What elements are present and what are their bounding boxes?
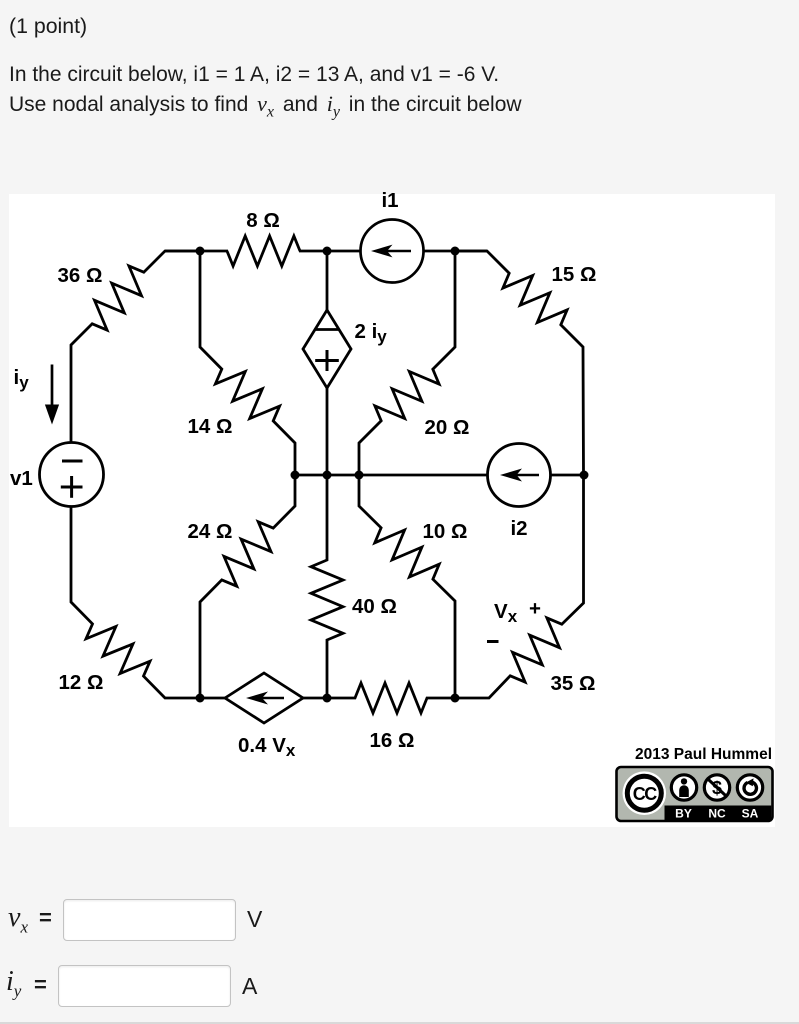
wire top bus left (node A to 8 ohm) bbox=[165, 250, 228, 253]
0.4Vx arrow (pointing left) bbox=[246, 692, 284, 705]
CC badge black strip bbox=[665, 806, 772, 822]
svg-text:35 Ω: 35 Ω bbox=[551, 672, 596, 695]
resistor 14 Ω (left-middle diagonal) bbox=[200, 251, 295, 475]
current source i2 arrow (pointing left) bbox=[500, 469, 539, 482]
v1 plus sign bbox=[61, 476, 83, 498]
svg-text:v1: v1 bbox=[10, 467, 33, 490]
resistor 20 Ω (right-middle diagonal) bbox=[359, 251, 455, 475]
circuit panel background bbox=[9, 194, 775, 827]
voltage source v1 (circle) bbox=[40, 443, 104, 507]
v1 minus sign bbox=[62, 460, 83, 463]
wire top bus (8 ohm to i1) bbox=[299, 250, 361, 253]
answer row vx bbox=[9, 899, 409, 945]
node G (right rail) bbox=[580, 471, 589, 480]
bottom edge line bbox=[0, 1022, 799, 1024]
svg-text:40 Ω: 40 Ω bbox=[352, 595, 397, 618]
wire middle bus (node to i2) bbox=[295, 474, 488, 477]
BY icon (attribution person) bbox=[671, 775, 696, 800]
resistor 15 Ω (top-right diagonal) bbox=[455, 251, 584, 475]
header: points bbox=[9, 14, 87, 39]
node A (top-left) bbox=[196, 247, 205, 256]
CC badge BY NC SA text bbox=[675, 807, 759, 821]
header: problem statement bbox=[9, 60, 522, 126]
node I (bottom-middle) bbox=[323, 694, 332, 703]
node B (top-middle) bbox=[323, 247, 332, 256]
resistor 36 Ω (top-left diagonal) bbox=[71, 251, 200, 443]
dependent source 2iy (diamond) bbox=[303, 310, 351, 388]
current source i1 arrow (pointing left) bbox=[371, 245, 411, 258]
iy current arrow (downward) bbox=[45, 365, 59, 425]
resistor 12 Ω (bottom-left diagonal) bbox=[71, 507, 200, 699]
node H (bottom-left) bbox=[196, 694, 205, 703]
svg-text:15 Ω: 15 Ω bbox=[552, 263, 597, 286]
input field vx bbox=[63, 899, 236, 941]
svg-text:20 Ω: 20 Ω bbox=[425, 416, 470, 439]
node C (top-right) bbox=[451, 247, 460, 256]
input field iy bbox=[58, 965, 231, 1007]
CC license badge background bbox=[617, 767, 773, 821]
svg-text:14 Ω: 14 Ω bbox=[188, 415, 233, 438]
wire 2iy diamond bottom to middle bus bbox=[326, 388, 329, 475]
CC logo circle bbox=[623, 771, 667, 815]
svg-text:16 Ω: 16 Ω bbox=[370, 729, 415, 752]
dependent source 0.4Vx (diamond) bbox=[225, 673, 303, 723]
answer row iy bbox=[8, 965, 408, 1011]
svg-text:i2: i2 bbox=[510, 517, 527, 540]
resistor 40 Ω (center vertical) bbox=[311, 475, 343, 698]
current source i2 (circle) bbox=[488, 444, 551, 507]
SA icon (share-alike arrow) bbox=[737, 775, 762, 800]
NC icon (no commercial, struck dollar) bbox=[704, 775, 729, 800]
wire top bus right (i1 to node C) bbox=[423, 250, 487, 253]
node D (mid-left) bbox=[291, 471, 300, 480]
wire middle bus (i2 to right rail) bbox=[550, 474, 584, 477]
svg-text:NC: NC bbox=[708, 807, 726, 821]
svg-text:8 Ω: 8 Ω bbox=[246, 209, 280, 232]
wire 0.4Vx diamond to node bbox=[303, 697, 327, 700]
wire bottom bus node to 0.4Vx diamond bbox=[200, 697, 225, 700]
2iy plus sign bbox=[315, 350, 339, 371]
resistor 10 Ω (right-lower diagonal) bbox=[359, 475, 455, 698]
svg-text:10 Ω: 10 Ω bbox=[423, 520, 468, 543]
2iy minus sign bbox=[315, 328, 338, 331]
svg-text:12 Ω: 12 Ω bbox=[59, 671, 104, 694]
wire node B to 2iy diamond top bbox=[326, 251, 329, 310]
svg-text:CC: CC bbox=[633, 784, 657, 804]
svg-text:36 Ω: 36 Ω bbox=[58, 264, 103, 287]
resistor 35 Ω (bottom-right diagonal) bbox=[455, 475, 584, 698]
svg-text:SA: SA bbox=[742, 807, 759, 821]
node J (bottom-right) bbox=[451, 694, 460, 703]
node E (mid-center) bbox=[323, 471, 332, 480]
svg-text:+: + bbox=[529, 597, 541, 620]
svg-text:24 Ω: 24 Ω bbox=[188, 520, 233, 543]
label Vx minus sign bbox=[487, 640, 499, 643]
current source i1 (circle) bbox=[361, 220, 424, 283]
svg-text:2013 Paul Hummel: 2013 Paul Hummel bbox=[635, 746, 772, 763]
resistor 16 Ω (bottom horizontal) bbox=[327, 683, 455, 713]
svg-text:i1: i1 bbox=[381, 189, 398, 212]
svg-text:BY: BY bbox=[675, 807, 692, 821]
resistor 24 Ω (left-lower diagonal) bbox=[200, 475, 295, 698]
node F (mid-right) bbox=[355, 471, 364, 480]
resistor 8 Ω (top, between node A and node B) bbox=[227, 236, 300, 266]
